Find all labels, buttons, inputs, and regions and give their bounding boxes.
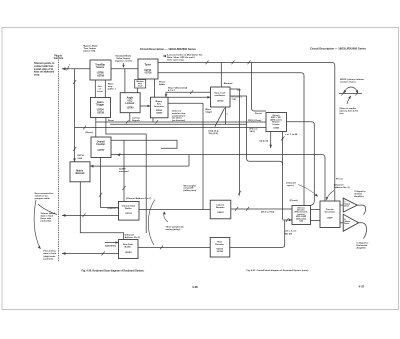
block: Row Data Buffer U2180 <box>119 240 139 259</box>
wire: into sync lock left, lower with arrowhead <box>168 96 211 98</box>
block: Column Decoder U2021 <box>210 200 231 219</box>
wire: counter output long to right page decoder <box>111 155 325 201</box>
wire: Tone/Bar bottom pair down to Alarm Trigger <box>94 80 96 98</box>
block: Seven Relative Counter U2050 <box>266 113 287 132</box>
wire: bus y=122 from alarm leg to counter <box>96 121 266 123</box>
op-amp V output driver <box>343 198 357 212</box>
svg-text:Tuner U2715 U2716: Tuner U2715 U2716 <box>144 65 152 75</box>
plug-in interface dashed boundary <box>58 60 60 263</box>
wire: binary bottom to bus <box>152 118 154 122</box>
wire: Tone/Bar source to Tuner <box>111 68 138 70</box>
block: Matrix Network <box>70 162 90 182</box>
svg-text:4-37: 4-37 <box>359 285 365 289</box>
wire: right feed into matrix with arrowhead <box>90 165 189 167</box>
block: right page stacked decoder <box>292 206 311 225</box>
svg-text:Circuit Description — 19GXL/RX: Circuit Description — 19GXL/RX2600 Serie… <box>310 47 367 51</box>
svg-text:(Preset): (Preset) <box>290 199 298 202</box>
wire: short vertical channel address <box>106 118 146 234</box>
annotation curve from keys note down <box>34 200 40 249</box>
svg-text:(U2076/T1): (U2076/T1) <box>108 208 119 210</box>
block: Tone/Bar Source U2708 U2709 <box>90 60 111 80</box>
wire: fine tuning input arrow to row data buffer <box>62 253 119 255</box>
wire: counter bottom to column buffer left input <box>101 158 119 208</box>
svg-text:Preset: Preset <box>255 112 262 115</box>
wire: column buffer to column decoder <box>139 209 210 211</box>
block: Tuner U2715 U2716 <box>138 59 158 79</box>
annotation curve from channel syncs <box>298 185 318 197</box>
wire: matrix feed from top with /16 slash <box>74 69 76 162</box>
wire: keyboard input into Tone/Bar source with arrowhead and /7 slash <box>62 68 90 70</box>
wire: tee down to seven-counter preset <box>252 63 267 112</box>
wire: entry into right-page decoder box <box>283 219 293 221</box>
wire: counter bottom right leg down to right-page decoder entry <box>282 132 284 166</box>
svg-text:Fig. 4-26. Keyboard Scan diag: Fig. 4-26. Keyboard Scan diagram of Keyb… <box>82 270 145 273</box>
svg-text:4-36: 4-36 <box>192 285 198 289</box>
svg-text:Blanked: Blanked <box>224 83 233 85</box>
wire A: tuner out y=62.5 long bus to right page <box>158 63 335 202</box>
svg-text:(3) (to 6): (3) (to 6) <box>260 139 269 142</box>
wire: decoder to format generator lower <box>311 220 321 222</box>
note: arc example with arrows <box>344 87 358 93</box>
svg-text:Fig. 4-27. Overall block diag: Fig. 4-27. Overall block diagram of Keyb… <box>247 269 309 272</box>
svg-text:Standard Mode Video Output (ap: Standard Mode Video Output (appears at l… <box>115 55 132 63</box>
block: Row Decoder U2102 U2103 <box>210 237 230 257</box>
block: Sync Lock oscillators U2720 <box>211 87 231 107</box>
op-amp H output driver <box>343 214 358 231</box>
block: Binary Key Generator U2510 U2509 <box>150 97 168 118</box>
wire: window box down to VCO lockout <box>137 88 139 93</box>
wire B: tuner out y=72.8 to right page <box>158 73 304 206</box>
block: Angle VCO Lockout U2745 <box>120 93 140 113</box>
wire: V driver output hook <box>357 205 365 214</box>
svg-text:Reset: Reset <box>108 119 114 122</box>
wire: column decoder output to right page decoder <box>231 208 292 210</box>
block: Overall Counter U2777 <box>91 137 111 158</box>
wire: VCO to binary key generator <box>140 105 150 107</box>
wire: format to H driver <box>340 222 343 224</box>
wire: decoder to format generator upper <box>311 209 321 211</box>
wire: VCO bottom to bus <box>129 113 131 122</box>
svg-text:Control Signals: Control Signals <box>132 116 141 122</box>
block: Alarm Trigger U2754 U2756 <box>91 98 111 118</box>
svg-text:Preset: Preset <box>336 177 343 180</box>
svg-text:Angle VCO Lockout U2745: Angle VCO Lockout U2745 <box>125 97 135 110</box>
wire: format to V driver <box>340 204 343 206</box>
wire: tee from main video wire down into VCO lockout top <box>124 69 126 93</box>
wire: bus y=127.6 with (Reset) tag <box>75 127 267 129</box>
wire: counter bottom left leg arrow <box>270 132 272 149</box>
svg-text:PR(1) (Clear): PR(1) (Clear) <box>248 120 262 122</box>
wire: bus y=124.3 <box>110 123 247 125</box>
wire: row buffer left input y=242.5 <box>105 242 119 244</box>
wire: binary lower side to vertical x=203 <box>168 103 203 209</box>
wire: sync lock upper feed down into binary key generator top <box>166 92 211 97</box>
block: Column Data Buffer U2191 <box>119 202 140 221</box>
svg-text:(07.5 to 7/10): (07.5 to 7/10) <box>261 211 275 214</box>
annotation curve into format generator top <box>327 191 335 201</box>
wire: sync lock right output to long vertical <box>230 89 240 196</box>
svg-text:Circuit Description — 19GXL/RX: Circuit Description — 19GXL/RX2600 Serie… <box>140 47 197 51</box>
wire: volume keys input arrow to column data buffer <box>62 214 119 216</box>
svg-text:(3rd), (5-6,7th), (8-9): (3rd), (5-6,7th), (8-9) <box>209 130 219 135</box>
wire: counter output to column data buffer feed <box>111 140 177 148</box>
svg-text:Phase Adder: Phase Adder <box>159 82 166 87</box>
block: Format Generator U23P <box>320 201 340 228</box>
svg-text:Plug-in Interface: Plug-in Interface <box>54 56 64 61</box>
svg-text:(Reset): (Reset) <box>86 131 94 134</box>
svg-text:Wave trigger: Wave trigger <box>205 109 212 114</box>
wire: H driver output hook <box>359 223 367 239</box>
svg-text:(Channel Address Pin 7): (Channel Address Pin 7) <box>126 197 151 200</box>
svg-text:+ or 7, to 68: + or 7, to 68 <box>285 133 298 136</box>
note: timer annotation above with left arrow <box>163 55 166 57</box>
wire: sync lock bottom leg <box>225 107 227 124</box>
wire: row decoder output to right page vertical <box>230 221 285 248</box>
wire: Alarm Trigger down to Overall Counter <box>95 118 97 138</box>
wire C: counter right output to right page <box>287 122 315 206</box>
wire: row buffer to row decoder <box>138 247 210 249</box>
wire: diagonal from sync lock bottom <box>215 108 225 127</box>
wire: tuner bottom to binary key generator <box>154 79 156 97</box>
block: small window amp level box under tuner <box>135 80 146 89</box>
svg-text:(U2076/T1): (U2076/T1) <box>105 245 116 247</box>
wire: blanking tee into sync lock oscillator <box>220 63 222 88</box>
wire: matrix bottom to row data buffer top <box>80 182 123 240</box>
